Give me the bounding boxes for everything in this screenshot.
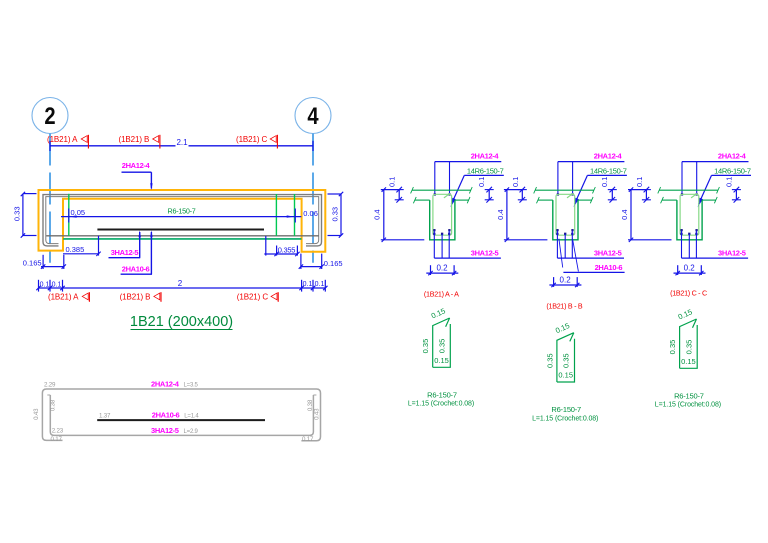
svg-text:0.385: 0.385 — [66, 245, 85, 254]
svg-text:0.1: 0.1 — [600, 177, 609, 187]
stirrup tick left — [68, 194, 70, 236]
stirrup detail A — [421, 306, 450, 367]
schedule label 2HA12-4 L=3.5 — [151, 379, 199, 388]
bar shape 3HA12-5 schedule — [47, 395, 316, 435]
svg-text:2HA10-6: 2HA10-6 — [152, 410, 180, 419]
svg-text:0.15: 0.15 — [434, 356, 449, 365]
dimension 0.2 section A — [426, 264, 458, 276]
svg-text:0.43: 0.43 — [33, 408, 40, 420]
svg-text:0.17: 0.17 — [51, 436, 63, 443]
svg-text:L=1.4: L=1.4 — [184, 413, 199, 419]
svg-text:0.1: 0.1 — [511, 177, 520, 187]
dimension 0.2 section B — [549, 275, 581, 287]
svg-text:2HA10-6: 2HA10-6 — [595, 263, 623, 272]
label 14R6-150-7 section C — [698, 166, 751, 207]
svg-text:(1B21) A - A: (1B21) A - A — [424, 289, 459, 298]
section C-C flange outline — [658, 187, 720, 203]
svg-text:0.35: 0.35 — [421, 339, 430, 354]
dimension R6-150-7 stirrup spacing — [61, 206, 318, 222]
svg-text:(1B21) A: (1B21) A — [48, 292, 79, 301]
svg-text:R6-150-7: R6-150-7 — [168, 206, 196, 215]
svg-text:0.1: 0.1 — [477, 177, 486, 187]
svg-text:R6-150-7: R6-150-7 — [427, 391, 457, 400]
svg-text:0.1: 0.1 — [635, 177, 644, 187]
svg-text:0.1: 0.1 — [724, 177, 733, 187]
svg-text:(1B21) C: (1B21) C — [237, 292, 269, 301]
svg-text:3HA12-5: 3HA12-5 — [471, 249, 499, 258]
beam orange frame ring — [39, 190, 326, 252]
schedule dimensions gray — [33, 381, 321, 443]
dimension 0.165 right — [299, 254, 343, 269]
section B-B flange outline — [534, 187, 596, 203]
section B-B top rebar leaders — [557, 162, 625, 196]
section A-A web outline — [430, 200, 455, 240]
svg-text:2HA12-4: 2HA12-4 — [471, 152, 500, 161]
section label (1B21) A - A — [424, 289, 459, 298]
svg-text:0.35: 0.35 — [562, 353, 571, 368]
section A-A bottom rebar leaders — [433, 229, 501, 258]
label 2HA12-4 elevation — [122, 161, 153, 190]
section A-A top rebar leaders — [434, 162, 502, 196]
svg-text:0.355: 0.355 — [278, 245, 295, 254]
svg-text:0.06: 0.06 — [303, 209, 318, 218]
label 3HA12-5 section A — [471, 249, 499, 258]
dimension 0.33 left — [13, 192, 37, 238]
svg-text:2.29: 2.29 — [44, 381, 56, 388]
svg-text:0.35: 0.35 — [684, 340, 693, 355]
svg-text:L=3.5: L=3.5 — [184, 382, 199, 388]
dimension 0.165 left — [23, 255, 66, 269]
svg-text:0.2: 0.2 — [436, 264, 448, 273]
svg-text:0.43: 0.43 — [313, 408, 320, 420]
stirrup detail B label — [532, 405, 598, 422]
section B-B stirrup — [556, 193, 575, 235]
bar shape 2HA10-6 schedule — [97, 419, 265, 421]
svg-text:0.17: 0.17 — [302, 436, 314, 443]
svg-text:2: 2 — [178, 279, 183, 288]
svg-text:2HA12-4: 2HA12-4 — [594, 152, 623, 161]
dimension 0.4 section A — [373, 187, 425, 242]
svg-text:(1B21) C: (1B21) C — [236, 135, 268, 144]
grid bubble 4 — [295, 98, 331, 134]
label 2HA10-6 section B — [559, 239, 625, 273]
svg-text:0.165: 0.165 — [324, 259, 343, 268]
svg-text:0.05: 0.05 — [71, 208, 86, 217]
svg-text:R6-150-7: R6-150-7 — [551, 405, 581, 414]
section C-C bottom rebar leaders — [680, 229, 748, 258]
schedule label 3HA12-5 L=2.9 — [151, 426, 199, 435]
svg-text:14R6-150-7: 14R6-150-7 — [714, 166, 751, 175]
stirrup detail C — [668, 307, 697, 368]
svg-text:4: 4 — [307, 103, 319, 130]
bottom bar 3HA12-5 black line — [97, 228, 264, 230]
svg-text:0.35: 0.35 — [668, 340, 677, 355]
svg-text:L=1.15 (Crochet:0.08): L=1.15 (Crochet:0.08) — [408, 401, 474, 408]
section mark (1B21) B top — [119, 135, 160, 149]
dimension 0.1 right section B — [600, 177, 617, 203]
svg-text:3HA12-5: 3HA12-5 — [151, 426, 179, 435]
svg-text:0.4: 0.4 — [373, 209, 382, 219]
svg-text:L=1.15 (Crochet:0.08): L=1.15 (Crochet:0.08) — [655, 402, 721, 409]
dimension 0.1 right section A — [477, 177, 494, 203]
stirrup tick right 2 — [294, 194, 296, 236]
svg-text:3HA12-5: 3HA12-5 — [111, 248, 139, 257]
dimension 0.4 section C — [620, 187, 672, 242]
svg-text:0.2: 0.2 — [560, 275, 572, 284]
section label (1B21) B - B — [546, 302, 582, 311]
svg-text:0.35: 0.35 — [437, 339, 446, 354]
stirrup detail C label — [655, 392, 721, 409]
section A-A flange outline — [411, 187, 473, 203]
svg-text:3HA12-5: 3HA12-5 — [594, 249, 622, 258]
svg-text:0.33: 0.33 — [330, 207, 339, 222]
svg-text:3HA12-5: 3HA12-5 — [718, 249, 746, 258]
label 3HA12-5 section C — [718, 249, 746, 258]
dimension row bottom 0.1 0.1 / 2 — [36, 279, 327, 292]
svg-text:(1B21) B: (1B21) B — [119, 135, 150, 144]
grid line 2 — [49, 134, 51, 263]
section mark (1B21) A bottom — [48, 292, 89, 302]
svg-text:R6-150-7: R6-150-7 — [674, 392, 704, 401]
svg-text:0.1: 0.1 — [315, 281, 325, 288]
svg-text:L=2.9: L=2.9 — [184, 429, 199, 435]
svg-text:0.1: 0.1 — [303, 281, 313, 288]
svg-text:2HA12-4: 2HA12-4 — [718, 152, 747, 161]
section C-C web outline — [677, 200, 702, 240]
svg-text:1.37: 1.37 — [99, 412, 111, 419]
stirrup tick right 1 — [275, 194, 277, 236]
svg-text:2: 2 — [44, 103, 55, 130]
label 14R6-150-7 section B — [574, 166, 627, 207]
schedule label 2HA10-6 L=1.4 — [152, 410, 200, 419]
beam top rebar gray outline — [43, 195, 322, 246]
section A-A stirrup — [433, 193, 452, 235]
bar shape 2HA12-4 schedule — [42, 389, 320, 441]
dimension 0.1 left section B — [511, 177, 527, 203]
svg-text:2.23: 2.23 — [52, 427, 64, 434]
dimension 0.355 — [264, 236, 299, 256]
svg-text:(1B21) A: (1B21) A — [47, 135, 78, 144]
svg-text:0.4: 0.4 — [620, 209, 629, 219]
dimension 0.2 section C — [674, 264, 706, 276]
dimension 0.1 left section A — [388, 177, 404, 203]
svg-text:1B21 (200x400): 1B21 (200x400) — [130, 314, 233, 330]
section B-B bottom rebar leaders — [556, 229, 624, 258]
dimension 0.385 — [63, 236, 101, 256]
svg-text:0.15: 0.15 — [681, 357, 696, 366]
svg-text:0.33: 0.33 — [13, 206, 22, 221]
grid bubble 2 — [32, 98, 68, 134]
svg-text:2HA12-4: 2HA12-4 — [151, 379, 180, 388]
bottom bar 2HA10-6 green line — [63, 238, 301, 240]
svg-text:0.2: 0.2 — [684, 264, 696, 273]
svg-text:0.35: 0.35 — [545, 353, 554, 368]
svg-text:14R6-150-7: 14R6-150-7 — [590, 166, 627, 175]
label 2HA10-6 elevation — [121, 230, 153, 274]
svg-text:0.15: 0.15 — [558, 371, 573, 380]
dimension 2.1 top — [50, 138, 313, 151]
section mark (1B21) A top — [47, 135, 88, 149]
section C-C top rebar leaders — [681, 162, 749, 196]
svg-text:0.1: 0.1 — [52, 281, 62, 288]
stirrup detail A label — [408, 391, 474, 408]
svg-text:14R6-150-7: 14R6-150-7 — [467, 166, 504, 175]
dimension 0.4 section B — [496, 187, 548, 242]
svg-text:2HA10-6: 2HA10-6 — [122, 264, 150, 273]
title 1B21 (200x400) — [130, 314, 233, 330]
section mark (1B21) B bottom — [120, 292, 161, 302]
svg-text:L=1.15 (Crochet:0.08): L=1.15 (Crochet:0.08) — [532, 415, 598, 422]
svg-text:(1B21) C - C: (1B21) C - C — [670, 289, 707, 298]
label 3HA12-5 section B — [594, 249, 622, 258]
label 2HA12-4 section A — [471, 152, 500, 161]
dimension 0.1 right section C — [724, 177, 741, 203]
dimension 0.1 left section C — [635, 177, 651, 203]
svg-text:2.1: 2.1 — [176, 138, 188, 147]
svg-text:0.165: 0.165 — [23, 259, 42, 268]
svg-text:(1B21) B: (1B21) B — [120, 292, 151, 301]
svg-text:2HA12-4: 2HA12-4 — [122, 161, 151, 170]
label 2HA12-4 section C — [718, 152, 747, 161]
beam bottom rebar gray line — [46, 235, 319, 237]
section label (1B21) C - C — [670, 289, 707, 298]
section B-B web outline — [553, 200, 578, 240]
svg-text:(1B21) B - B: (1B21) B - B — [546, 302, 582, 311]
svg-text:0.4: 0.4 — [496, 209, 505, 219]
section mark (1B21) C top — [236, 135, 277, 149]
label 2HA12-4 section B — [594, 152, 623, 161]
label 14R6-150-7 section A — [451, 166, 504, 207]
grid line 4 — [312, 134, 314, 263]
svg-text:0.1: 0.1 — [388, 177, 397, 187]
section mark (1B21) C bottom — [237, 292, 278, 302]
svg-text:0.38: 0.38 — [50, 399, 57, 411]
stirrup detail B — [545, 321, 574, 382]
dimension 0.33 right — [328, 192, 344, 238]
svg-text:0.1: 0.1 — [40, 281, 50, 288]
label 3HA12-5 elevation — [109, 230, 141, 258]
section C-C stirrup — [680, 193, 699, 235]
